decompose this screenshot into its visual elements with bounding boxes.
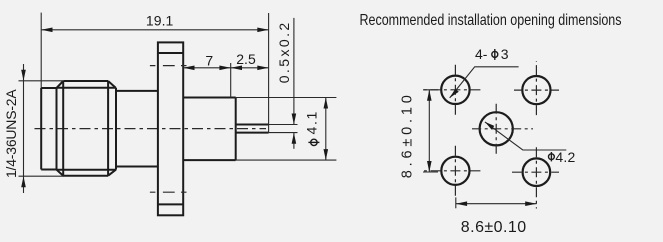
dimension line 19.1 bbox=[41, 29, 268, 31]
arrow 0.5x0.2 down at pin top bbox=[292, 114, 297, 125]
extension line between 7 and 2.5 bbox=[230, 63, 232, 98]
0.5x0.2 dimension line lower bbox=[293, 133, 295, 149]
hole top-left bbox=[441, 76, 469, 104]
svg-text:19.1: 19.1 bbox=[146, 13, 174, 29]
svg-text:7: 7 bbox=[205, 53, 213, 69]
hole bottom-right bbox=[523, 158, 551, 186]
flange inner lines bbox=[158, 53, 183, 204]
label phi4.2 bbox=[549, 149, 576, 165]
hole top-right bbox=[522, 76, 550, 104]
svg-text:4-: 4- bbox=[475, 46, 488, 62]
center pin bbox=[236, 125, 269, 133]
svg-text:Recommended installation openi: Recommended installation opening dimensi… bbox=[360, 12, 622, 29]
arrow 0.5x0.2 up at pin bottom bbox=[292, 133, 297, 144]
center hole bbox=[480, 112, 513, 145]
arrow 2.5 right bbox=[257, 66, 268, 71]
pin edge extension lines bbox=[269, 125, 298, 133]
hex flat lines bbox=[63, 81, 108, 176]
svg-text:1/4-36UNS-2A: 1/4-36UNS-2A bbox=[3, 89, 19, 178]
arrow 2.5 left bbox=[231, 66, 242, 71]
crosshair top-left hole bbox=[424, 89, 481, 91]
hex nut silhouette bbox=[57, 88, 117, 170]
left dim extension ticks bbox=[423, 90, 438, 172]
svg-text:0.5x0.2: 0.5x0.2 bbox=[276, 23, 292, 84]
arrow leader 4-phi3 bbox=[450, 89, 459, 98]
extension line left end (19.1) bbox=[40, 13, 42, 88]
label 4-phi3 bbox=[475, 46, 509, 62]
rear cylinder body bbox=[183, 98, 236, 161]
crosshair center hole bbox=[472, 128, 533, 130]
arrow phi4.1 up bbox=[324, 98, 329, 109]
svg-text:8.6±0.10: 8.6±0.10 bbox=[461, 219, 526, 236]
svg-text:4.2: 4.2 bbox=[555, 149, 575, 165]
phi4.1 dimension line bbox=[325, 98, 327, 161]
arrow bottom dim right bbox=[525, 201, 536, 206]
svg-text:2.5: 2.5 bbox=[236, 51, 256, 67]
arrow 19.1 right bbox=[257, 28, 268, 33]
centerline bbox=[35, 128, 267, 130]
arrow 19.1 left bbox=[41, 28, 52, 33]
arrow left dim down bbox=[427, 161, 432, 172]
thread dimension line bbox=[23, 64, 25, 193]
leader phi4.2 bbox=[485, 122, 566, 150]
0.5x0.2 dimension line upper bbox=[293, 18, 295, 125]
flange mounting hole hidden centerline top bbox=[150, 65, 191, 67]
svg-text:8.6±0.10: 8.6±0.10 bbox=[400, 95, 416, 178]
crosshair bottom-left hole bbox=[424, 170, 481, 172]
hex caps bbox=[63, 81, 108, 176]
flange mounting hole hidden centerline bottom bbox=[150, 191, 191, 193]
arrow phi4.1 down bbox=[324, 149, 329, 160]
thread extension line bottom bbox=[19, 175, 65, 177]
arrow left dim up bbox=[427, 90, 432, 101]
flange bbox=[158, 42, 183, 215]
svg-text:4.1: 4.1 bbox=[303, 111, 319, 134]
hole bottom-left bbox=[441, 157, 469, 185]
dimension line 7 and 2.5 bbox=[183, 67, 268, 69]
crosshair top-right hole bbox=[514, 89, 559, 91]
svg-text:3: 3 bbox=[501, 46, 509, 62]
arrow thread bottom (pointing up) bbox=[21, 176, 26, 187]
hex corner chamfers bbox=[57, 81, 117, 176]
bottom dim extension tick left bbox=[455, 197, 457, 208]
extension line right end (19.1 / 2.5 / pin end) bbox=[268, 13, 270, 133]
bottom dimension line 8.6 bbox=[456, 203, 537, 205]
label phi4.1 (rotated) bbox=[303, 111, 319, 145]
arrow 7 left bbox=[183, 66, 194, 71]
thread extension line top bbox=[19, 80, 64, 82]
mating face (left strip) bbox=[41, 88, 56, 170]
arrow thread top (pointing down) bbox=[21, 70, 26, 81]
leader 4-phi3 bbox=[450, 67, 519, 98]
phi4.1 extension lines (cylinder edges extended) bbox=[236, 98, 337, 161]
cylinder between hex and flange bbox=[116, 91, 158, 167]
crosshair bottom-right hole bbox=[512, 171, 559, 173]
left dimension line 8.6 bbox=[428, 90, 430, 172]
arrow bottom dim left bbox=[456, 201, 467, 206]
arrow 7 right bbox=[219, 66, 230, 71]
arrow leader phi4.2 bbox=[485, 122, 494, 130]
